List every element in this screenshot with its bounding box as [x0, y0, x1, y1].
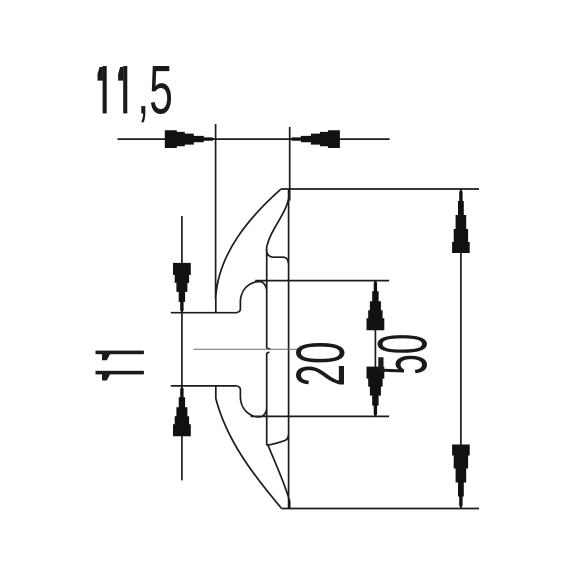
top dimension line 11,5	[118, 138, 390, 140]
profile right face	[288, 189, 290, 509]
arrow: top dim left (points right, tip at 214.8,139.1)	[165, 130, 215, 148]
left dimension line 11	[181, 216, 183, 480]
top dim left extension line	[215, 124, 217, 299]
arrow: top dim right (points left, tip at 289.9,139.1)	[290, 130, 340, 148]
lower claw outer curve	[216, 399, 282, 509]
svg-text:5: 5	[149, 52, 173, 129]
mid dim bottom extension line	[251, 415, 390, 417]
top dim right extension line	[289, 127, 291, 201]
arrow: mid dim up (tip at 375.4,280.3)	[367, 280, 385, 330]
profile bottom edge (and 50-dim bottom extension)	[282, 508, 479, 510]
upper-right notch diagonal	[267, 191, 290, 249]
svg-text:50: 50	[364, 334, 441, 375]
svg-text:,: ,	[137, 52, 149, 129]
centerline	[193, 348, 298, 350]
upper hump (slot cavity top)	[237, 282, 267, 313]
mid dim top extension line	[255, 280, 389, 282]
arrow: right dim down (tip at 460.9,508.5)	[452, 445, 470, 509]
hollow chamber left wall lower part	[266, 353, 268, 446]
label 11,5 : digit 1 (second)	[123, 66, 127, 113]
middle dimension line 20	[374, 280, 376, 416]
arrow: left dim down (tip at 181.9,312.9)	[173, 263, 191, 313]
lower hump (slot cavity bottom)	[237, 386, 267, 417]
label 11,5 : digit 1	[98, 66, 128, 113]
neck tick lower	[267, 351, 270, 354]
upper claw tip face	[215, 296, 217, 313]
hollow chamber top wall	[267, 248, 289, 264]
hollow chamber left wall upper part	[266, 249, 268, 348]
upper claw outer curve	[216, 189, 281, 296]
label 11 (rotated) : digit 1	[96, 351, 144, 381]
lower-right notch diagonal	[268, 445, 290, 508]
profile top edge (and 50-dim top extension)	[281, 188, 479, 190]
arrow: mid dim down (tip at 375.4,416.6)	[367, 367, 385, 417]
slot top edge with 11-dim extension	[171, 312, 237, 314]
arrow: left dim up (tip at 181.9,386.3)	[173, 386, 191, 436]
right dimension line 50	[460, 189, 462, 509]
neck tick upper	[267, 348, 271, 349]
slot bottom edge with 11-dim extension	[171, 385, 237, 387]
arrow: right dim up (tip at 460.9,189)	[452, 189, 470, 253]
label 11 (rotated) : digit 1 (second)	[96, 371, 144, 375]
lower claw tip face	[215, 386, 217, 399]
svg-text:20: 20	[282, 341, 359, 386]
hollow chamber bottom wall	[267, 435, 289, 446]
